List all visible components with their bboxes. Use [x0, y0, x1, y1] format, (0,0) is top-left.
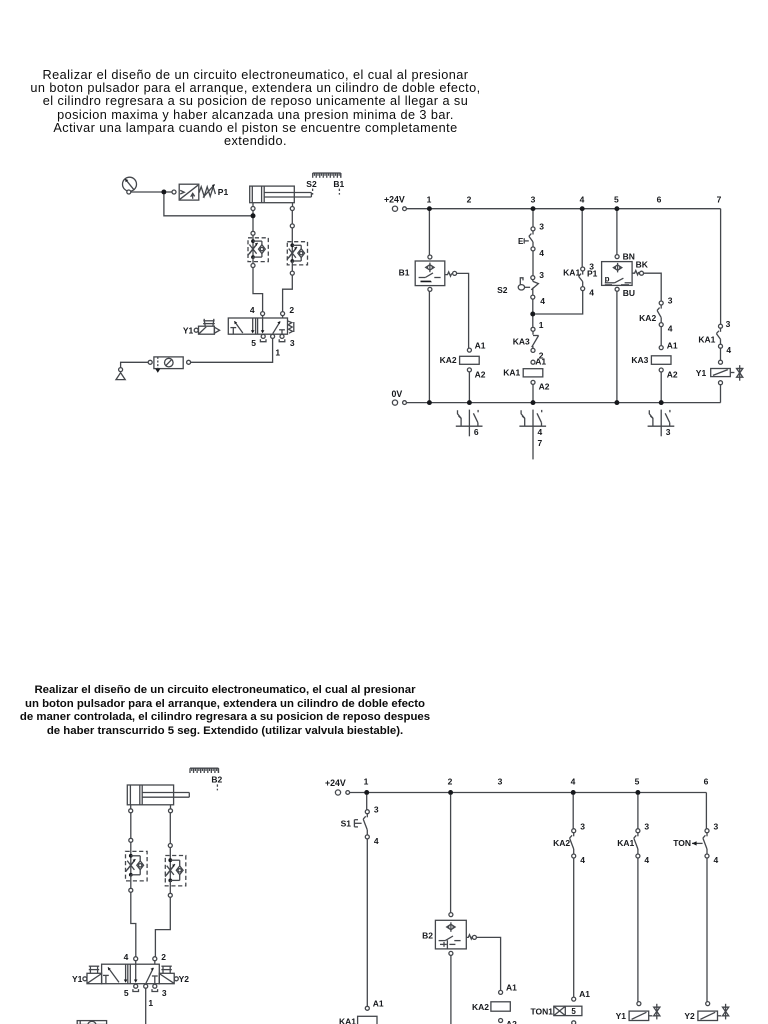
flow control valve right: [287, 242, 307, 265]
svg-text:A2: A2: [539, 382, 550, 392]
node rail col3: [531, 206, 536, 211]
problem statement 2: [0, 684, 450, 738]
flow control valve 2 left: [126, 851, 148, 881]
valve right box vertical path: [262, 318, 264, 331]
wire rail2 end down col6: [705, 793, 707, 829]
wire left port down: [130, 813, 132, 839]
wire to port 2 of valve 2: [155, 897, 170, 956]
svg-text:S2: S2: [306, 179, 317, 189]
port 1: [271, 334, 275, 338]
valve2 right box flow arrow: [146, 968, 153, 983]
node 0V col6: [659, 400, 664, 405]
pressure gauge: [123, 177, 137, 191]
svg-text:B2: B2: [211, 774, 222, 784]
cylinder right port: [292, 203, 294, 207]
svg-text:A1: A1: [506, 983, 517, 993]
svg-text:5: 5: [614, 195, 619, 205]
valve2 port 2: [153, 957, 157, 961]
valve right box flow arrow: [273, 321, 280, 333]
svg-text:2: 2: [467, 195, 472, 205]
svg-text:TON1: TON1: [530, 1006, 553, 1016]
svg-text:3: 3: [726, 319, 731, 329]
B2 side output: [466, 935, 472, 939]
wire KA1 contact to col3: [535, 291, 582, 314]
relay coil KA2: [467, 348, 471, 352]
svg-text:TON: TON: [673, 838, 691, 848]
svg-text:B1: B1: [399, 267, 410, 277]
wire KA2 contact to TON1: [573, 858, 575, 997]
svg-text:3: 3: [498, 776, 503, 786]
valve2 port 3 exhaust: [153, 984, 157, 988]
svg-text:3: 3: [374, 804, 379, 814]
svg-text:5: 5: [124, 988, 129, 998]
svg-text:4: 4: [714, 855, 719, 865]
svg-text:2: 2: [448, 776, 453, 786]
solenoid Y1: [194, 328, 198, 332]
svg-text:1: 1: [427, 195, 432, 205]
+24V rail circuit2: [350, 792, 707, 794]
svg-text:3: 3: [290, 338, 295, 348]
valve2 port 4: [134, 957, 138, 961]
relay coil KA1 circuit2: [365, 1006, 369, 1010]
wire to KA3 coil: [660, 327, 662, 346]
wire col4 to KA2 contact: [572, 795, 574, 829]
Y2 valve symbol circuit2: [718, 1015, 722, 1017]
pressure switch P1 (pneumatic-electric converter): [179, 184, 199, 200]
measuring scale ruler 2: [190, 767, 218, 769]
wire col5 to KA1 contact: [637, 795, 639, 829]
svg-text:6: 6: [704, 776, 709, 786]
wire S2 to node: [532, 299, 534, 327]
svg-text:Y2: Y2: [684, 1011, 695, 1021]
svg-text:Y1: Y1: [696, 368, 707, 378]
svg-text:4: 4: [539, 248, 544, 258]
contact KA1 NO circuit2: [636, 829, 640, 833]
solenoid coil Y2 circuit2: [706, 1002, 710, 1006]
svg-text:3: 3: [580, 821, 585, 831]
valve2 left box vertical path: [125, 964, 127, 980]
svg-text:KA2: KA2: [639, 313, 656, 323]
port 5 exhaust: [262, 333, 264, 335]
svg-text:Y2: Y2: [179, 974, 190, 984]
svg-text:3: 3: [644, 821, 649, 831]
svg-text:KA3: KA3: [513, 337, 530, 347]
valve2 port 1: [144, 984, 148, 988]
flow control valve left: [248, 238, 268, 262]
cylinder2 left port: [130, 805, 132, 809]
sensor B1 proximity switch: [415, 261, 445, 286]
node rail col4: [580, 206, 585, 211]
wire port1 down: [145, 988, 147, 1024]
svg-text:5: 5: [571, 1007, 576, 1016]
relay coil KA3: [659, 346, 663, 350]
measuring scale ruler: [313, 172, 341, 174]
valve left box blocked port: [230, 327, 236, 329]
svg-text:E: E: [518, 237, 524, 246]
svg-text:4: 4: [580, 855, 585, 865]
relay coil KA2 circuit2: [499, 990, 503, 994]
svg-text:1: 1: [539, 320, 544, 330]
wire to Y1 coil: [720, 348, 722, 360]
wire junction down-right to cylinder line: [164, 195, 251, 216]
svg-text:A2: A2: [667, 370, 678, 380]
svg-text:B1: B1: [333, 179, 344, 189]
node 0V col5: [614, 400, 619, 405]
solenoid Y2 right: [159, 973, 174, 983]
wire flow valve left to port 4: [253, 268, 263, 312]
wire service unit to air supply: [121, 362, 149, 367]
svg-text:4: 4: [589, 288, 594, 298]
valve left box flow arrow: [234, 321, 242, 333]
node rail2 col4: [571, 790, 576, 795]
contact KA3 NC: [531, 327, 535, 331]
wire gauge to junction: [131, 191, 162, 193]
svg-text:3: 3: [666, 427, 671, 437]
0V rail: [406, 402, 720, 404]
svg-text:KA3: KA3: [631, 355, 648, 365]
svg-text:4: 4: [540, 296, 545, 306]
svg-text:Y1: Y1: [183, 326, 194, 336]
valve 5/2 bistable body: [102, 964, 160, 984]
node rail2 col1: [364, 790, 369, 795]
svg-text:2: 2: [161, 952, 166, 962]
node col3 col4 join: [530, 312, 535, 317]
contact KA2 NO rung6: [659, 301, 663, 305]
node 0V col1: [427, 400, 432, 405]
solenoid coil Y1: [719, 360, 723, 364]
svg-text:KA2: KA2: [553, 838, 570, 848]
KA2 contact cross reference: [468, 410, 470, 437]
problem statement 1: [0, 69, 511, 148]
svg-text:2: 2: [289, 305, 294, 315]
valve2 port 5 exhaust: [134, 984, 138, 988]
double-acting cylinder 2: [127, 785, 173, 805]
wire B1 to KA2 coil: [457, 273, 469, 348]
wire KA1 contact to Y1 coil: [637, 858, 639, 1002]
wire Y1 to 0V: [720, 385, 722, 403]
svg-text:KA2: KA2: [472, 1002, 489, 1012]
svg-text:3: 3: [531, 195, 536, 205]
node rail2 col2: [448, 790, 453, 795]
svg-text:6: 6: [657, 195, 662, 205]
B1 bottom terminal: [428, 287, 432, 291]
svg-text:0V: 0V: [392, 389, 403, 399]
wire right port down: [169, 813, 171, 844]
wire col2 to B2: [450, 795, 452, 913]
air service unit: [154, 357, 183, 369]
wire col1 down to B1: [428, 211, 430, 255]
KA3 contact cross reference: [660, 410, 662, 437]
wire E to S2: [532, 251, 534, 276]
svg-text:BN: BN: [623, 251, 635, 261]
svg-text:3: 3: [539, 222, 544, 232]
contact KA1 NO rung3: [581, 267, 585, 271]
svg-text:4: 4: [538, 427, 543, 437]
svg-text:5: 5: [635, 776, 640, 786]
wire P1 to 0V: [616, 291, 618, 402]
node supply junction: [161, 190, 166, 195]
valve left box vertical path: [252, 318, 254, 331]
svg-text:5: 5: [251, 338, 256, 348]
node 0V col3: [531, 400, 536, 405]
svg-text:S1: S1: [341, 819, 352, 829]
svg-text:4: 4: [580, 195, 585, 205]
wire col1 B1 to 0V: [428, 291, 430, 402]
wire junction to pressure switch: [166, 191, 172, 193]
node rail2 col5: [635, 790, 640, 795]
wire KA3 coil to 0V: [660, 372, 662, 403]
wire to port 4 of valve 2: [131, 892, 136, 956]
spring of P1: [199, 187, 215, 197]
svg-text:KA1: KA1: [339, 1017, 356, 1024]
manual override: [204, 319, 205, 326]
svg-text:B2: B2: [422, 930, 433, 940]
relay coil KA1: [531, 360, 535, 364]
cylinder2 right port: [170, 805, 172, 809]
node 0V col2: [467, 400, 472, 405]
port 3 exhaust: [280, 334, 284, 338]
svg-text:KA1: KA1: [698, 334, 715, 344]
valve right box blocked port: [279, 329, 285, 331]
Y1 valve symbol: [730, 372, 734, 374]
svg-text:3: 3: [714, 821, 719, 831]
svg-text:P1: P1: [587, 268, 598, 278]
node rail col5: [614, 206, 619, 211]
svg-text:BU: BU: [623, 288, 635, 298]
svg-text:4: 4: [124, 952, 129, 962]
svg-text:1: 1: [148, 998, 153, 1008]
valve2 right box blocked port: [152, 975, 158, 977]
terminal +24V: [392, 206, 397, 211]
svg-text:4: 4: [571, 776, 576, 786]
terminal 0V: [392, 400, 397, 405]
svg-text:KA2: KA2: [440, 355, 457, 365]
svg-text:6: 6: [474, 427, 479, 437]
timer relay TON1: [572, 997, 576, 1001]
node junction on left line: [251, 213, 256, 218]
svg-text:3: 3: [162, 988, 167, 998]
limit switch S2: [531, 276, 535, 280]
solenoid Y1 left: [83, 977, 87, 981]
wire flow valve right to port 2: [283, 275, 293, 312]
contact KA1 NO rung7: [719, 324, 723, 328]
svg-text:A1: A1: [579, 989, 590, 999]
wire col3 down to E: [532, 211, 534, 227]
wire TON contact to Y2 coil: [706, 858, 708, 1002]
Y1 valve symbol circuit2: [649, 1015, 653, 1017]
valve 5/2 body: [228, 318, 287, 334]
wire BK to KA2 contact: [644, 273, 662, 301]
wire left port down: [252, 211, 254, 232]
svg-text:KA1: KA1: [563, 267, 580, 277]
compressed air supply: [119, 368, 123, 372]
svg-text:P1: P1: [218, 187, 229, 197]
svg-text:+24V: +24V: [325, 778, 346, 788]
sensor B2 cylinder extended: [449, 913, 453, 917]
P1 side output BK: [632, 271, 639, 275]
air service unit 2 partial: [77, 1021, 106, 1024]
svg-text:4: 4: [374, 836, 379, 846]
svg-text:+24V: +24V: [384, 195, 405, 205]
svg-text:A2: A2: [475, 369, 486, 379]
+24V supply rail: [406, 208, 720, 210]
valve return spring: [288, 321, 293, 333]
valve2 left box blocked port: [103, 974, 109, 976]
svg-text:3: 3: [539, 270, 544, 280]
svg-text:1: 1: [275, 348, 280, 358]
port 4: [261, 312, 265, 316]
wire B2 to KA2 coil: [476, 937, 500, 990]
svg-text:KA1: KA1: [503, 368, 520, 378]
svg-text:4: 4: [250, 305, 255, 315]
S2 roller: [518, 285, 524, 290]
wire col4 down to KA1 contact: [581, 211, 583, 267]
pushbutton E start: [531, 227, 535, 231]
svg-text:A2: A2: [506, 1019, 517, 1024]
svg-text:Y1: Y1: [616, 1011, 627, 1021]
KA1 contact cross reference: [532, 410, 534, 460]
svg-text:A1: A1: [475, 340, 486, 350]
wire col5 down to P1: [616, 211, 618, 255]
contact TON delayed NO: [705, 829, 709, 833]
svg-text:4: 4: [668, 324, 673, 334]
wire KA2 to 0V: [468, 372, 470, 403]
svg-text:A1: A1: [373, 998, 384, 1008]
svg-text:4: 4: [644, 855, 649, 865]
cylinder left port: [252, 203, 254, 207]
svg-text:1: 1: [364, 776, 369, 786]
svg-text:4: 4: [726, 345, 731, 355]
double-acting cylinder: [250, 186, 295, 203]
pressure switch P1 sensor box: [615, 255, 619, 259]
flow control valve 2 right: [165, 856, 186, 886]
terminal +24V circuit2: [335, 790, 340, 795]
svg-text:A1: A1: [535, 356, 546, 366]
svg-text:7: 7: [538, 438, 543, 448]
valve2 left box flow arrow: [108, 967, 119, 982]
contact KA2 NO circuit2: [572, 829, 576, 833]
solenoid coil Y1 circuit2: [637, 1002, 641, 1006]
port 2: [281, 312, 285, 316]
wire col1 to S1: [366, 795, 368, 810]
wire port1 to service unit: [191, 338, 273, 362]
B1 side output: [445, 272, 452, 276]
svg-text:7: 7: [717, 195, 722, 205]
wire right port down: [291, 211, 293, 224]
valve2 right box vertical path: [135, 964, 137, 980]
svg-text:3: 3: [668, 296, 673, 306]
wire rail right end down col7: [720, 209, 722, 325]
svg-text:Y1: Y1: [72, 974, 83, 984]
pushbutton S1: [365, 810, 369, 814]
node rail col1: [427, 206, 432, 211]
P1 bottom terminal BU: [615, 287, 619, 291]
svg-text:A1: A1: [667, 340, 678, 350]
wire S1 to KA1 coil: [366, 839, 368, 1006]
svg-text:KA1: KA1: [617, 838, 634, 848]
svg-text:S2: S2: [497, 285, 508, 295]
svg-text:BK: BK: [636, 260, 649, 270]
wire KA1 coil to 0V: [532, 384, 534, 402]
wire B2 to 0V edge: [450, 955, 452, 1024]
